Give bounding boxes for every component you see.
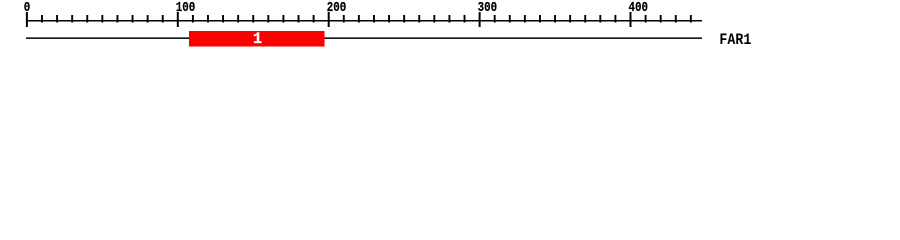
svg-text:1: 1 <box>743 32 751 49</box>
svg-text:1: 1 <box>253 30 262 48</box>
svg-text:A: A <box>727 32 735 49</box>
svg-text:200: 200 <box>327 0 347 16</box>
svg-text:R: R <box>735 32 743 49</box>
svg-text:100: 100 <box>176 0 196 16</box>
svg-text:400: 400 <box>629 0 649 16</box>
svg-text:F: F <box>719 32 727 49</box>
svg-text:300: 300 <box>478 0 498 16</box>
svg-text:0: 0 <box>24 0 31 16</box>
